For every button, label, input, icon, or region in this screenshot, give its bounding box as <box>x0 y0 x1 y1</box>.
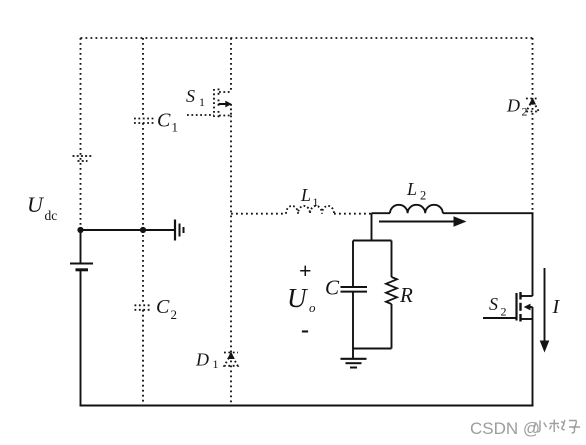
label Udc <box>27 86 561 371</box>
inductor L2 (solid) <box>390 205 443 213</box>
svg-text:D: D <box>506 96 520 116</box>
wire L1 to junction (dashed) <box>334 213 372 215</box>
wire RC top bar <box>353 240 392 242</box>
transistor S2 body arrow <box>526 306 533 308</box>
svg-text:U: U <box>287 283 308 313</box>
wire junction to L2 (solid) <box>372 212 391 214</box>
svg-text:1: 1 <box>172 120 179 135</box>
svg-text:I: I <box>552 296 561 318</box>
battery Udc plates <box>70 263 93 265</box>
wire right rail solid down to S2 <box>532 213 534 296</box>
wire junction down to RC <box>371 213 373 240</box>
capacitor C1 plates (dashed) <box>134 119 154 124</box>
node B junction dot <box>140 227 146 233</box>
wire left vertical (dashed) from top rail to node A <box>80 38 82 229</box>
svg-text:C: C <box>157 110 171 132</box>
wire L1 branch (dashed) from third vertical <box>231 213 284 215</box>
transistor S1 body arrow (solid) <box>219 103 227 105</box>
current arrow I (right side) <box>544 268 546 342</box>
svg-text:U: U <box>27 192 45 217</box>
svg-text:D: D <box>195 350 209 370</box>
svg-text:-: - <box>301 317 309 343</box>
capacitor C plates <box>341 286 368 288</box>
diode D2 apex arrow (solid) <box>529 98 536 105</box>
wire battery to bottom rail <box>80 270 82 406</box>
wire top rail (dashed) <box>81 37 533 39</box>
svg-text:S: S <box>186 86 195 106</box>
watermark CSDN <box>470 419 540 438</box>
transistor S1 (dashed MOSFET) <box>187 89 231 119</box>
svg-text:CSDN @: CSDN @ <box>470 419 540 438</box>
svg-text:C: C <box>156 296 170 318</box>
svg-text:dc: dc <box>45 208 58 223</box>
wire L2 to right rail (solid) <box>443 212 534 214</box>
svg-text:R: R <box>399 283 413 307</box>
wire R branch lower <box>391 304 393 349</box>
svg-text:1: 1 <box>213 357 219 371</box>
ground (below C) <box>352 349 354 359</box>
inductor L1 (dashed) <box>286 206 334 214</box>
wire bottom rail (solid) <box>80 405 534 407</box>
watermark 小杞子 (drawn strokes) <box>534 420 581 433</box>
wire second vertical upper (dashed) <box>142 38 144 118</box>
resistor R zigzag <box>386 277 397 304</box>
svg-text:2: 2 <box>420 189 426 203</box>
wire third vertical below S1 (dashed) <box>230 116 232 406</box>
svg-text:o: o <box>309 300 316 315</box>
svg-text:L: L <box>300 185 311 205</box>
wire C2 to bottom rail (dashed) <box>142 310 144 406</box>
svg-text:L: L <box>406 179 417 199</box>
svg-text:C: C <box>325 276 340 300</box>
wire C branch lower <box>352 292 354 349</box>
transistor S2 (solid MOSFET) <box>483 292 533 322</box>
wire RC bottom bar <box>353 348 392 350</box>
svg-text:2: 2 <box>501 305 507 319</box>
diode D1 apex arrow (solid) <box>227 352 234 360</box>
svg-text:S: S <box>489 294 498 314</box>
wire node A down to battery <box>80 230 82 263</box>
wire R branch upper <box>391 241 393 278</box>
ground (rotated, mid) <box>174 220 176 241</box>
wire right rail S2 to bottom rail <box>532 319 534 406</box>
capacitor C2 plates (dashed) <box>135 305 153 310</box>
battery cell (dashed) on left branch <box>73 156 93 161</box>
wire C branch upper <box>352 241 354 288</box>
node A junction dot <box>77 227 83 233</box>
wire third vertical top (dashed) to S1 drain <box>230 38 232 92</box>
wire C1 to node B (dashed) <box>142 123 144 230</box>
svg-text:1: 1 <box>199 95 205 109</box>
diode D2 (dashed) <box>526 99 539 112</box>
wire right rail top (dashed) to D2 <box>532 38 534 213</box>
current arrow under L2 <box>379 221 457 223</box>
wire node B down to C2 (dashed) <box>142 230 144 305</box>
svg-text:2: 2 <box>522 105 528 119</box>
svg-text:+: + <box>299 258 312 283</box>
wire mid horizontal node A to ground <box>81 229 175 231</box>
svg-text:2: 2 <box>171 307 178 322</box>
svg-text:1: 1 <box>313 195 319 209</box>
diode D1 (dashed) <box>224 353 238 366</box>
